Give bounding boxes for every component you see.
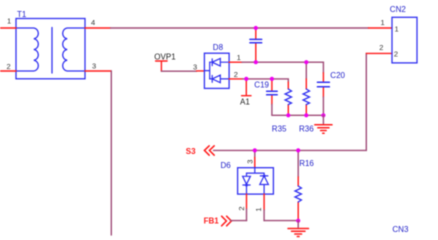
svg-text:2: 2 xyxy=(237,206,246,210)
CN2 pin 2 stub xyxy=(366,52,392,54)
wire D8 pin1 row xyxy=(242,62,323,73)
wire D8 pin2 row xyxy=(243,79,289,82)
svg-text:1: 1 xyxy=(237,53,241,62)
svg-text:CN2: CN2 xyxy=(390,5,407,14)
D6 internal bus xyxy=(247,168,265,173)
svg-text:2: 2 xyxy=(379,43,383,52)
svg-text:A1: A1 xyxy=(240,97,250,106)
wire S3 row xyxy=(214,53,367,150)
capacitor top (unlabeled) xyxy=(255,28,257,62)
svg-text:2: 2 xyxy=(394,50,398,59)
junction R36 top xyxy=(304,60,308,64)
junction R35 bottom xyxy=(286,113,290,117)
D6 pin 2 lead xyxy=(246,194,248,209)
wire D6 pin3 drop xyxy=(254,150,256,157)
wire T1 pin3 vertical xyxy=(110,71,112,235)
CN2 pin 1 stub xyxy=(369,27,393,29)
wire OVP1 to D8 pin3 xyxy=(161,70,196,72)
svg-text:1: 1 xyxy=(7,16,11,25)
T1 pin 1 wire xyxy=(1,27,17,29)
D8 diode 1 xyxy=(210,58,229,66)
svg-text:1: 1 xyxy=(395,25,399,34)
resistor R35 xyxy=(287,82,289,115)
D8 pin 3 stub xyxy=(197,70,205,72)
junction R36 bottom xyxy=(304,113,308,117)
junction pin1 row left xyxy=(254,60,258,64)
D6 diode right xyxy=(260,173,269,194)
junction C19 top xyxy=(270,77,274,81)
node A1 xyxy=(242,79,251,96)
svg-text:OVP1: OVP1 xyxy=(154,53,176,62)
ground rail xyxy=(322,115,324,123)
connector CN2 xyxy=(392,17,417,63)
junction R16 top xyxy=(296,148,300,152)
resistor R36 xyxy=(305,62,307,79)
svg-text:2: 2 xyxy=(7,62,11,71)
svg-text:D6: D6 xyxy=(221,161,232,170)
node OVP1 xyxy=(156,61,168,71)
svg-text:1: 1 xyxy=(254,207,263,211)
svg-text:S3: S3 xyxy=(186,147,196,156)
svg-text:1: 1 xyxy=(381,18,385,27)
svg-text:3: 3 xyxy=(92,61,96,70)
junction rail right xyxy=(321,113,325,117)
junction top wire xyxy=(254,26,258,30)
svg-text:CN3: CN3 xyxy=(392,225,409,234)
T1 primary winding xyxy=(16,28,38,71)
D6 pin 1 lead xyxy=(263,194,265,210)
svg-text:3: 3 xyxy=(245,160,254,164)
D6 diode left xyxy=(243,173,251,194)
capacitor C20 xyxy=(322,73,324,97)
svg-text:3: 3 xyxy=(193,62,197,71)
transformer T1 xyxy=(16,19,85,79)
D8 pin 2 stub xyxy=(229,78,242,80)
ground bottom xyxy=(297,221,299,228)
resistor R16 xyxy=(297,150,299,177)
svg-text:R35: R35 xyxy=(272,125,287,134)
svg-text:R36: R36 xyxy=(299,125,314,134)
svg-text:D8: D8 xyxy=(213,43,224,52)
junction D6 pin3 xyxy=(253,148,257,152)
D8 internal bus xyxy=(204,62,209,79)
svg-text:2: 2 xyxy=(234,70,238,79)
T1 pin 4 stub xyxy=(85,27,111,29)
wire D6 pin1 to ground xyxy=(264,220,298,222)
svg-text:4: 4 xyxy=(91,18,95,27)
wire bottom rail xyxy=(272,114,324,116)
wire top net to CN2 pin1 xyxy=(111,27,369,29)
svg-text:C20: C20 xyxy=(330,71,345,80)
junction A1 xyxy=(244,77,248,81)
T1 secondary winding xyxy=(63,28,85,71)
capacitor C19 xyxy=(271,79,273,105)
T1 pin 3 stub xyxy=(85,70,111,72)
D8 diode 2 xyxy=(210,75,229,83)
dual diode D6 xyxy=(238,168,274,194)
svg-text:R16: R16 xyxy=(299,159,314,168)
svg-text:C19: C19 xyxy=(254,80,269,89)
T1 core xyxy=(51,28,53,74)
D8 pin 1 stub xyxy=(229,61,242,63)
svg-text:T1: T1 xyxy=(17,10,27,19)
wire FB1 to D6 pin2 xyxy=(231,220,247,222)
dual diode D8 xyxy=(204,53,229,88)
junction R16 bottom xyxy=(296,219,300,223)
svg-text:FB1: FB1 xyxy=(204,217,220,226)
T1 pin 2 wire xyxy=(1,70,17,72)
